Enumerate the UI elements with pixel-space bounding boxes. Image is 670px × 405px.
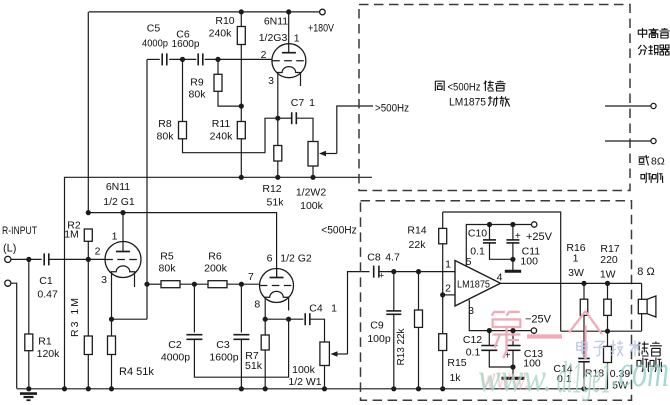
svg-text:<500Hz: <500Hz [321, 225, 357, 237]
node W2/line junction [310, 175, 315, 180]
svg-text:+25V: +25V [526, 231, 553, 243]
wire crossover out lower [605, 140, 651, 142]
wire input to C1 [11, 258, 42, 260]
watermark lavender row [577, 340, 641, 356]
node R2 top junction [86, 210, 91, 215]
svg-text:R4 51k: R4 51k [119, 366, 154, 378]
wire pin5 supply [466, 225, 531, 267]
svg-text:www.: www. [478, 355, 552, 400]
svg-text:1600p: 1600p [172, 38, 200, 50]
node W1 ground [322, 386, 327, 391]
svg-text:R-INPUT: R-INPUT [2, 225, 37, 237]
wire pin3 to R5 node [112, 318, 148, 320]
wire G3 plate lead pin1 [288, 12, 290, 52]
node gline ground [62, 386, 67, 391]
node C13 top [510, 328, 515, 333]
svg-text:R13 22k: R13 22k [396, 328, 407, 366]
svg-text:C5: C5 [147, 23, 161, 35]
svg-text:1/2 W1: 1/2 W1 [288, 376, 321, 388]
resistor R1 [25, 259, 60, 388]
capacitor C3 [209, 284, 249, 389]
node R12/line junction [275, 175, 280, 180]
svg-text:80k: 80k [189, 89, 207, 101]
svg-text:100: 100 [520, 256, 538, 268]
node R10/R9/R11 junction [239, 104, 244, 109]
wire grid G3 row [147, 58, 272, 60]
label <500Hz [321, 225, 357, 237]
svg-text:7: 7 [248, 271, 254, 283]
wire C1 to G1 grid pin2 [49, 258, 105, 260]
svg-text:R8: R8 [158, 118, 172, 130]
svg-text:1W: 1W [600, 269, 616, 281]
potentiometer W1 1/2W1 100k [288, 342, 347, 389]
label 6N11 G1 [103, 181, 135, 208]
svg-text:4.7: 4.7 [385, 252, 400, 264]
svg-text:8 Ω: 8 Ω [637, 266, 654, 278]
node pin8/R7 junction [263, 317, 268, 322]
resistor R11 [210, 106, 246, 177]
svg-text:LM1875: LM1875 [457, 280, 490, 291]
capacitor C11 [506, 225, 540, 271]
terminal -25V [525, 314, 552, 334]
capacitor C8 [367, 252, 400, 281]
capacitor C13 [505, 331, 544, 377]
resistor R2 [64, 220, 92, 260]
svg-text:1M: 1M [64, 229, 79, 241]
node pin2 junction [440, 292, 445, 297]
tube U-G2 6N11 1/2G2 [248, 253, 312, 311]
resistor R4 [108, 319, 155, 388]
op-amp U2 LM1875 [445, 256, 503, 317]
svg-text:1: 1 [112, 231, 118, 243]
node R13 ground [416, 386, 421, 391]
node G1 pin3 junction [109, 317, 114, 322]
wire R5-R6 [180, 283, 208, 285]
svg-text:2: 2 [95, 246, 101, 258]
svg-text:2: 2 [445, 283, 451, 295]
capacitor C4 [305, 303, 337, 343]
svg-text:22k: 22k [409, 239, 427, 251]
svg-text:R15: R15 [447, 357, 466, 369]
svg-text:R10: R10 [215, 15, 234, 27]
svg-text:di1ge1: di1ge1 [557, 353, 611, 402]
wire feedback top [443, 212, 561, 331]
node C10-C11 bottom [510, 257, 515, 262]
svg-text:1/2G3: 1/2G3 [259, 32, 288, 44]
wire cathode row y319 [265, 318, 303, 320]
capacitor C12 [463, 331, 513, 367]
resistor R7 [245, 319, 269, 389]
svg-text:C12: C12 [463, 334, 482, 346]
dashed box LM1875 channel [361, 201, 632, 401]
node G3 cathode junction [275, 116, 280, 121]
svg-text:C10: C10 [468, 228, 487, 240]
wire G2 cathode lead pin8 [264, 297, 266, 319]
svg-text:R5: R5 [160, 251, 174, 263]
svg-text:6: 6 [267, 253, 273, 265]
node R16 top [581, 281, 586, 286]
ground bar +25V filter [505, 270, 521, 273]
svg-text:−25V: −25V [525, 314, 552, 326]
svg-text:LM1875: LM1875 [449, 97, 486, 109]
svg-text:80k: 80k [159, 263, 177, 275]
node C2-return junction [286, 317, 291, 322]
svg-text:+180V: +180V [308, 23, 335, 35]
svg-text:R12: R12 [262, 183, 281, 195]
svg-text:4000p: 4000p [161, 352, 190, 364]
capacitor C10 [468, 225, 513, 260]
svg-text:C8: C8 [367, 252, 381, 264]
capacitor C1 [37, 253, 58, 300]
resistor R12 [262, 118, 284, 208]
svg-text:1600p: 1600p [209, 352, 238, 364]
node R17-R18 junction [605, 329, 610, 334]
capacitor C2 [161, 284, 289, 377]
svg-text:100k: 100k [300, 200, 324, 212]
wire W1 wiper to C8 [348, 272, 370, 354]
node R17 top [605, 281, 610, 286]
terminal crossover lower [651, 138, 656, 143]
node C11 top [510, 222, 515, 227]
svg-text:1: 1 [294, 33, 300, 45]
svg-text:R14: R14 [407, 225, 426, 237]
wire G2 plate lead pin6 [276, 269, 278, 278]
svg-text:3: 3 [101, 274, 107, 286]
node R2/R3 junction [86, 257, 91, 262]
ground symbol [20, 394, 37, 401]
svg-text:1/2W2: 1/2W2 [296, 187, 327, 199]
wire G2 heater stub [288, 297, 290, 310]
node R13 junction [416, 269, 421, 274]
watermark pink www [480, 360, 530, 397]
node R1 ground [26, 386, 31, 391]
node B+/G3 plate junction [286, 9, 291, 14]
resistor R13 [396, 272, 423, 389]
wire crossover out upper [605, 105, 651, 107]
capacitor C6 [172, 29, 203, 66]
svg-text:1: 1 [331, 303, 337, 315]
svg-text:R3 1M: R3 1M [69, 298, 81, 337]
capacitor C5 [142, 23, 168, 66]
label R-INPUT [2, 225, 37, 255]
wire B+ top rail [89, 11, 320, 13]
watermark teal url [478, 345, 669, 402]
node C5-C6 junction [180, 57, 185, 62]
wire G1 plate lead pin1 [122, 213, 124, 252]
node R15 ground [440, 386, 445, 391]
tube U-G1 6N11 1/2G1 [95, 231, 141, 287]
wire speaker drop [641, 283, 643, 331]
resistor R8 [157, 59, 278, 152]
terminal +25V [526, 222, 553, 243]
svg-text:51k: 51k [245, 360, 263, 372]
wire G1-G2 plate coupling y212 [88, 213, 276, 278]
node G1 plate junction [120, 210, 125, 215]
ground bar -25V filter [502, 377, 525, 380]
node R5 left junction [144, 282, 149, 287]
node input/R1 junction [26, 257, 31, 262]
label crossover [638, 28, 669, 55]
label or-8ohm speaker [639, 155, 665, 183]
resistor R16 [566, 242, 587, 357]
resistor R14 [407, 212, 446, 295]
svg-text:8: 8 [254, 299, 260, 311]
node R3 ground [86, 386, 91, 391]
wire C8 to pin1 [379, 271, 455, 273]
svg-text:1: 1 [309, 97, 315, 109]
node C9 ground [391, 386, 396, 391]
svg-text:>500Hz: >500Hz [375, 103, 409, 115]
node C12 top [487, 328, 492, 333]
wire pin3 supply [469, 300, 531, 331]
node C3 ground [239, 386, 244, 391]
node C9 junction [391, 269, 396, 274]
svg-text:R6: R6 [208, 251, 222, 263]
svg-text:R17: R17 [600, 243, 619, 255]
wire G1 cathode lead pin3 [111, 272, 113, 319]
svg-text:<500Hz: <500Hz [448, 82, 481, 94]
svg-text:6N11: 6N11 [264, 16, 288, 28]
svg-text:100p: 100p [367, 333, 391, 345]
svg-text:0.47: 0.47 [37, 289, 58, 301]
svg-text:C9: C9 [370, 320, 384, 332]
capacitor C7 [278, 97, 315, 142]
node C12-C13 bottom [510, 364, 515, 369]
label same-as box line1 [435, 81, 505, 94]
svg-text:1: 1 [573, 253, 579, 265]
terminal crossover upper [651, 103, 656, 108]
svg-text:R11: R11 [212, 118, 231, 130]
node G2 grid/C3 junction [239, 282, 244, 287]
resistor R5 [147, 251, 180, 288]
svg-text:8Ω: 8Ω [651, 156, 665, 168]
node C14 ground [581, 386, 586, 391]
label same-as box line2 [449, 96, 510, 109]
potentiometer W2 1/2W2 100k [296, 142, 337, 213]
node R4 ground [109, 386, 114, 391]
svg-text:3W: 3W [568, 267, 584, 279]
svg-text:3: 3 [268, 75, 274, 87]
terminal +180V [308, 9, 335, 34]
svg-text:240k: 240k [209, 28, 233, 40]
resistor R9 [189, 59, 242, 106]
node C10 top [487, 222, 492, 227]
svg-text:1: 1 [445, 259, 451, 271]
svg-text:100k: 100k [292, 364, 316, 376]
svg-text:120k: 120k [37, 348, 61, 360]
watermark pink diyijia [492, 311, 602, 359]
svg-text:C1: C1 [39, 275, 53, 287]
wire B+ left drop to R2 node [87, 12, 89, 213]
resistor R15 [439, 295, 467, 389]
svg-text:51k: 51k [267, 197, 285, 209]
wire input-ground drop [11, 283, 17, 388]
wire G1 heater stub [134, 272, 136, 287]
svg-text:.com: .com [611, 345, 669, 396]
terminal input ground [5, 280, 11, 286]
wire ground-return line y177 [65, 177, 373, 388]
wire pin2 [443, 294, 455, 296]
wire C5-left vertical [146, 59, 148, 319]
node grid/R9 junction [215, 57, 220, 62]
svg-text:1/2 G2: 1/2 G2 [280, 253, 312, 265]
wire ground rail [17, 388, 608, 390]
svg-text:0.1: 0.1 [470, 245, 485, 257]
wire W2 wiper riser to >500Hz [337, 106, 373, 154]
svg-text:240k: 240k [210, 131, 234, 143]
resistor R3 [69, 259, 92, 388]
svg-text:C4: C4 [309, 303, 323, 315]
svg-text:4000p: 4000p [142, 38, 168, 50]
svg-text:R9: R9 [190, 77, 204, 89]
label woofer [637, 342, 662, 373]
svg-text:6N11: 6N11 [106, 181, 130, 193]
svg-text:220: 220 [600, 254, 618, 266]
svg-text:2: 2 [261, 49, 267, 61]
label 8ohm [637, 266, 654, 278]
resistor R17 [600, 243, 620, 331]
svg-text:4: 4 [497, 272, 503, 284]
node R11/line junction [239, 175, 244, 180]
resistor R18 [585, 331, 631, 391]
svg-text:C2: C2 [168, 339, 182, 351]
resistor R10 [209, 12, 246, 106]
svg-text:(L): (L) [3, 243, 16, 255]
svg-text:80k: 80k [157, 131, 175, 143]
wire output [501, 282, 642, 284]
svg-text:R1: R1 [38, 336, 52, 348]
wire G3 cathode lead pin3 [277, 73, 279, 119]
capacitor C14 [553, 358, 589, 388]
node B+/R10 junction [239, 9, 244, 14]
wire R6 to G2 grid pin7 [227, 283, 260, 285]
svg-text:200k: 200k [204, 263, 228, 275]
tube U-G3 6N11 1/2G3 [259, 16, 306, 88]
resistor R6 [204, 251, 228, 288]
speaker 8ohm [638, 296, 656, 317]
svg-text:C3: C3 [216, 339, 230, 351]
capacitor C9 [367, 272, 401, 389]
node R5-R6 junction [192, 282, 197, 287]
terminal input L [5, 256, 11, 262]
node R7 ground [263, 386, 268, 391]
wire G3 heater stub [300, 73, 302, 87]
wire speaker return [561, 330, 642, 332]
svg-text:1k: 1k [449, 372, 461, 384]
svg-text:1/2 G1: 1/2 G1 [103, 196, 135, 208]
label >500Hz [375, 103, 409, 115]
svg-text:C7: C7 [291, 97, 305, 109]
dashed box other channel [359, 5, 630, 191]
